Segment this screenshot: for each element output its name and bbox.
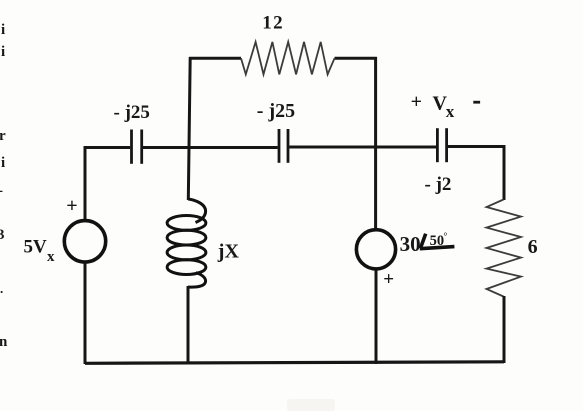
svg-text:- j25: - j25 — [257, 100, 295, 122]
wire left branch vertical bottom: source to bottom rail — [84, 263, 87, 364]
resistor 6 (right zigzag) — [487, 200, 522, 297]
svg-text:i: i — [1, 44, 5, 60]
inductor jX top hook — [188, 199, 205, 223]
svg-text:r: r — [0, 128, 6, 144]
svg-text:n: n — [0, 334, 8, 350]
voltage source 5Vx circle — [64, 221, 105, 262]
inductor jX loop 1 — [167, 216, 206, 231]
svg-text:x: x — [47, 249, 55, 265]
svg-text:x: x — [446, 102, 455, 121]
wire source branch vertical top (top rail corner down through middle rail) — [374, 57, 377, 228]
angle symbol horizontal bar — [420, 247, 455, 249]
wire middle rail segment 4 (C3 to right corner) — [448, 145, 504, 148]
wire middle rail segment 2 (C1 to C2) — [143, 146, 278, 149]
capacitor C2 -j25 right plate — [287, 129, 290, 163]
svg-text:- j25: - j25 — [114, 102, 150, 123]
svg-text:3: 3 — [0, 227, 5, 243]
wire top rail right segment — [335, 57, 377, 60]
svg-text:+: + — [66, 195, 77, 217]
svg-text:-: - — [0, 183, 3, 199]
inductor jX loop 3 — [167, 245, 206, 260]
wire middle rail segment 3 (C2 to C3) — [289, 146, 436, 149]
svg-text:i: i — [1, 22, 5, 38]
capacitor C1 -j25 right plate — [140, 130, 143, 164]
svg-text:5V: 5V — [24, 237, 48, 258]
svg-text:.: . — [0, 281, 3, 296]
wire top rail left segment — [189, 57, 241, 60]
svg-text:12: 12 — [262, 13, 284, 34]
wire bottom rail — [85, 362, 504, 364]
wire right branch vertical top (right corner to resistor) — [503, 145, 506, 200]
current source 30&#8736;50&#176; circle — [356, 230, 395, 269]
faint erased figure caption mark — [287, 399, 335, 411]
svg-text:°: ° — [444, 231, 448, 241]
svg-text:+: + — [411, 91, 422, 113]
wire right branch vertical bottom (resistor to bottom rail) — [503, 296, 506, 363]
inductor jX loop 2 — [167, 230, 206, 245]
wire source branch vertical bottom (source to bottom rail) — [375, 270, 378, 364]
capacitor C1 -j25 left plate — [130, 130, 133, 164]
svg-text:6: 6 — [528, 236, 538, 258]
svg-text:jX: jX — [217, 240, 240, 262]
wire inductor branch vertical top (from top rail through rail to coil) — [188, 57, 190, 200]
resistor 12 (top zigzag) — [241, 42, 335, 75]
wire left branch vertical (x=85) top: rail corner to source — [84, 146, 87, 220]
svg-text:50: 50 — [430, 233, 445, 249]
svg-text:+: + — [383, 269, 394, 290]
wire inductor branch vertical bottom (coil to bottom rail) — [187, 286, 190, 364]
svg-text:30: 30 — [400, 232, 421, 256]
capacitor C2 -j25 left plate — [278, 129, 281, 163]
wire middle rail segment 1 (corner to C1) — [85, 146, 130, 149]
svg-text:i: i — [1, 155, 5, 171]
angle symbol diagonal stroke — [420, 234, 425, 249]
inductor jX bottom hook — [188, 273, 206, 288]
inductor jX loop 4 — [167, 260, 206, 275]
capacitor C3 -j2 right plate — [445, 128, 448, 162]
capacitor C3 -j2 left plate — [436, 128, 439, 162]
svg-text:- j2: - j2 — [425, 174, 452, 195]
